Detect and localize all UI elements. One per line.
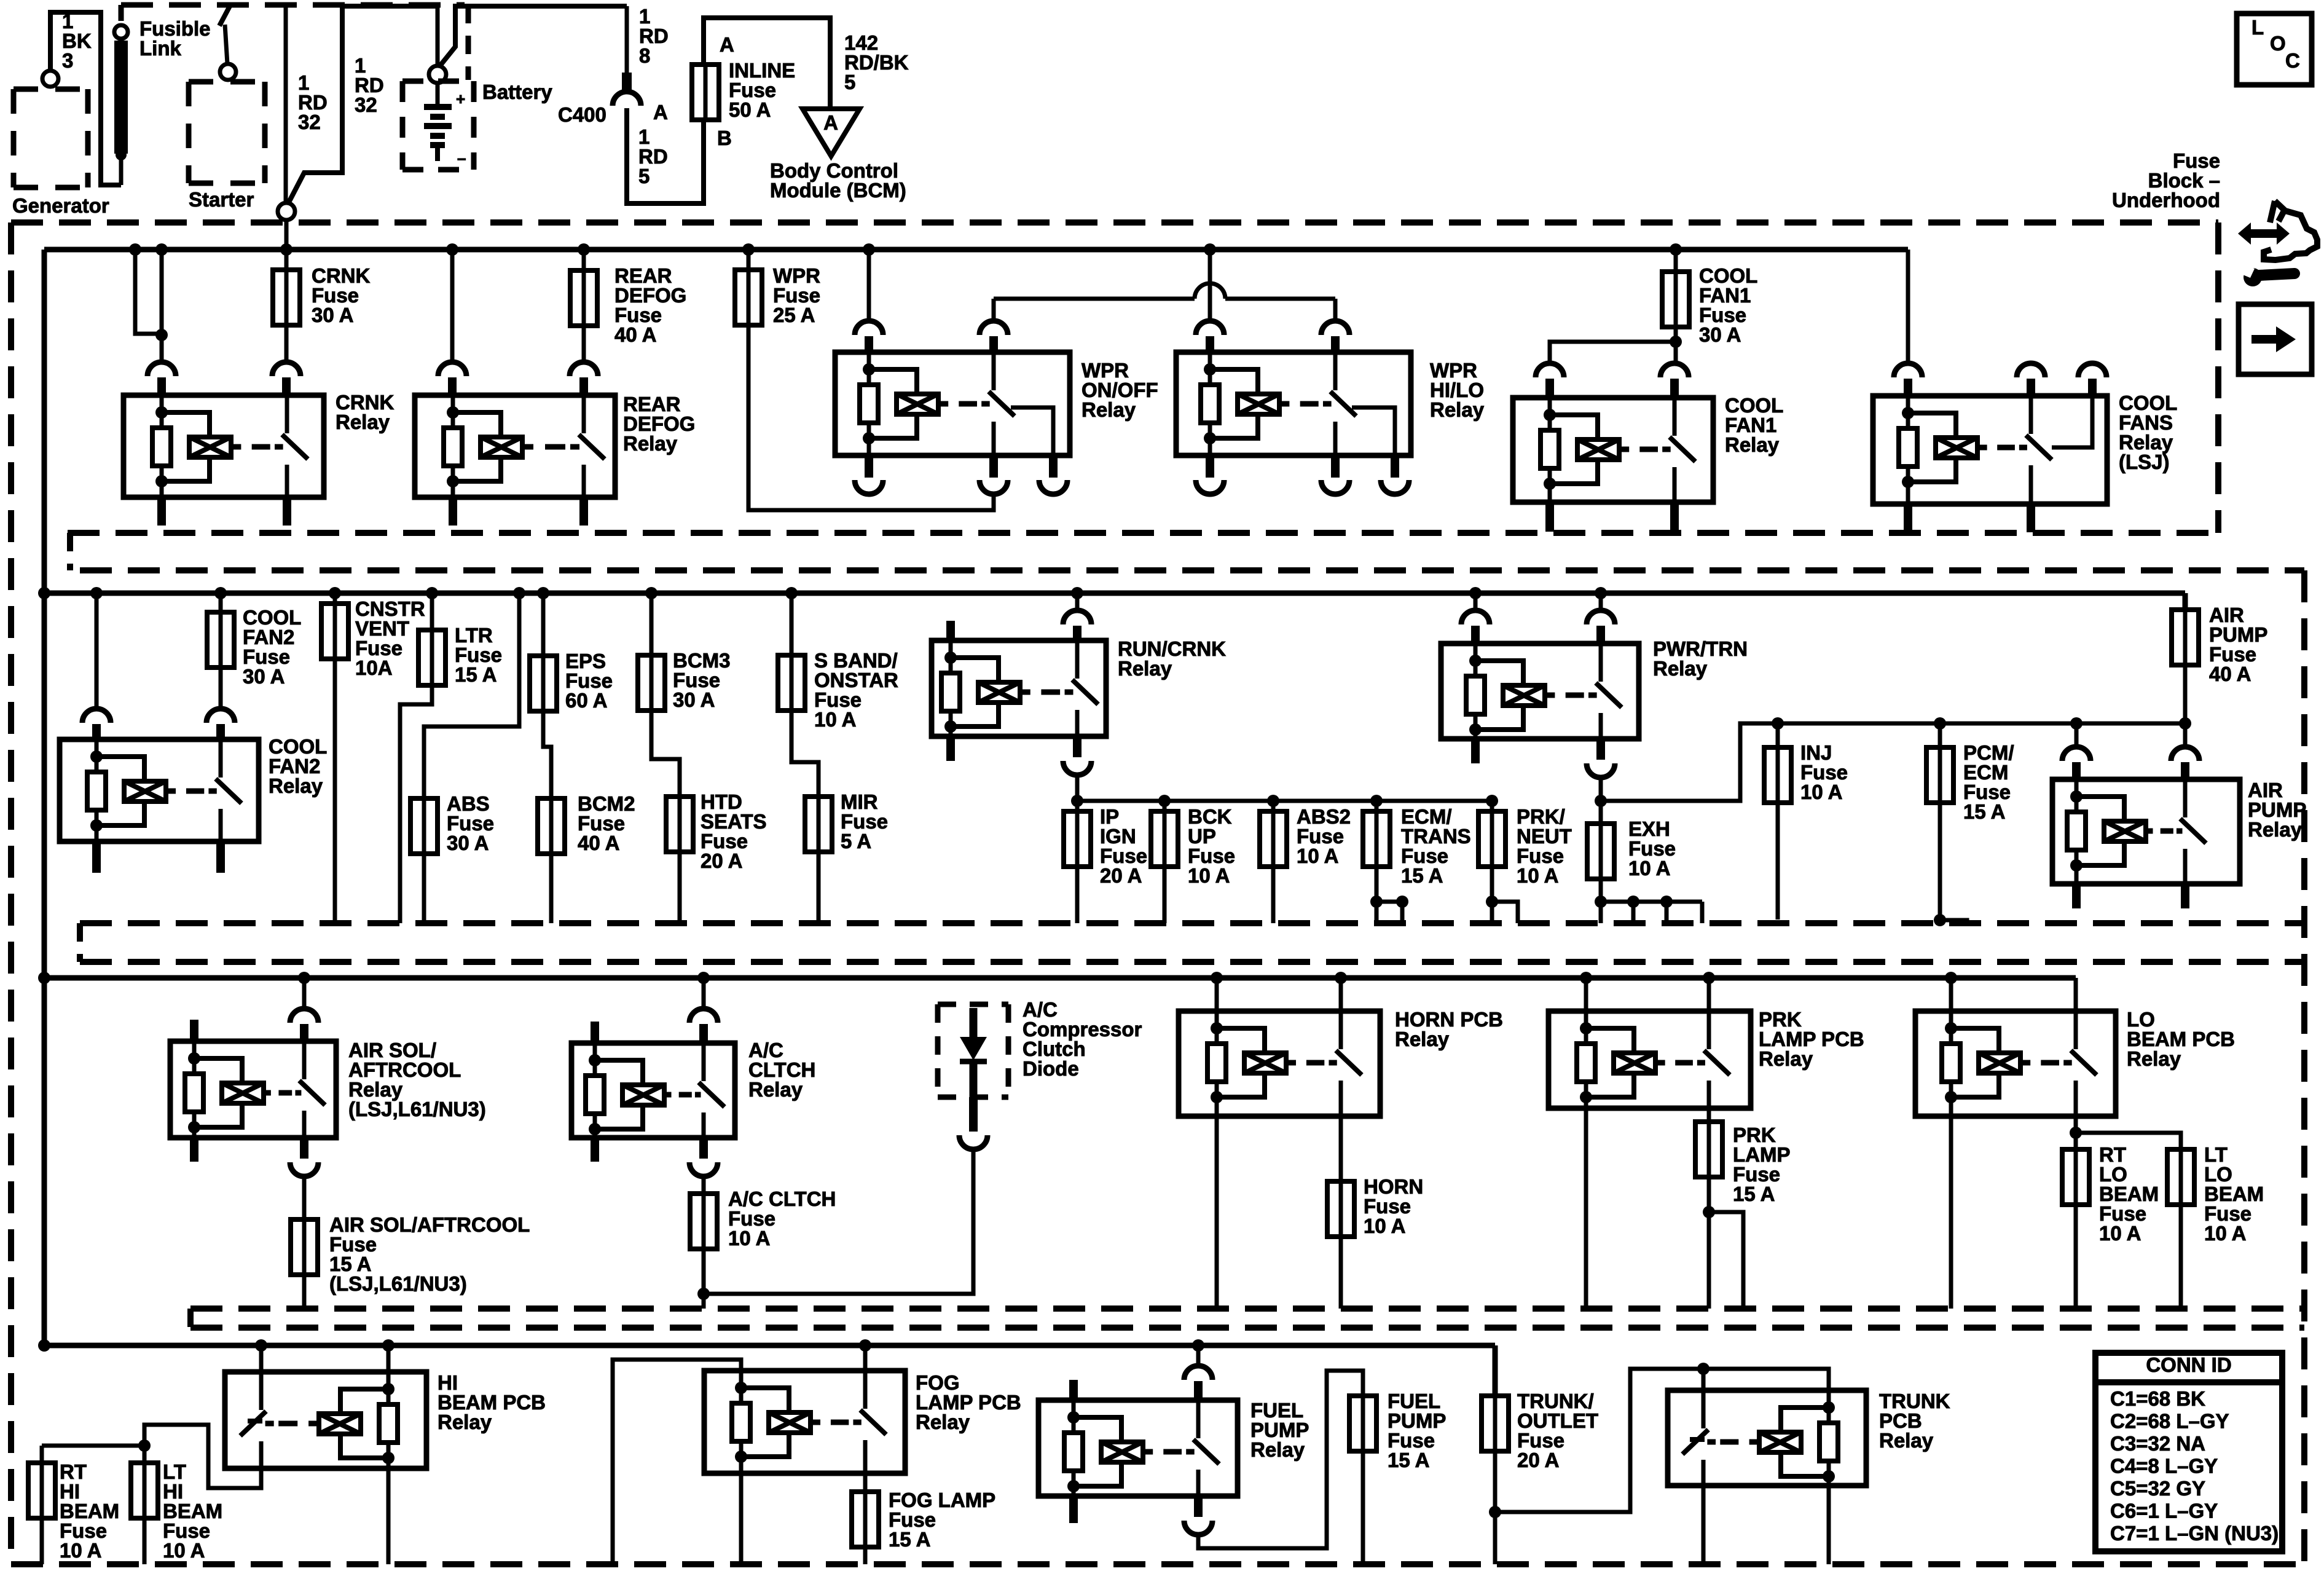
icon hand with arrows: [2264, 201, 2317, 260]
relay TRUNK PCB: [1668, 1390, 1866, 1486]
relay AIR SOL/AFTRCOOL: [170, 1041, 336, 1138]
LT LO BEAM fuse 10A: [2076, 1133, 2181, 1149]
BCK UP fuse 10A: [1163, 801, 1167, 811]
fuse TRUNK OUTLET 20A: [1482, 1396, 1509, 1451]
relay PRK LAMP PCB: [1584, 978, 1588, 1011]
relay HORN PCB: [1215, 978, 1219, 1011]
svg-text:+: +: [456, 90, 465, 108]
wire to starter: [219, 5, 230, 26]
fuse PCM ECM 15A: [1926, 747, 1953, 803]
COOL FAN2 fuse 30A: [219, 593, 223, 612]
fuse HTD SEATS 20A: [666, 797, 693, 852]
fuse PRK LAMP 15A: [1695, 1122, 1722, 1177]
PCM/ECM fuse 15A: [1938, 723, 1942, 747]
svg-text:A: A: [653, 101, 668, 124]
generator box: [14, 87, 88, 92]
IP IGN fuse 20A: [1075, 801, 1080, 811]
fuse FUEL PUMP 15A: [1349, 1396, 1376, 1451]
LTR fuse 15A: [430, 593, 434, 630]
relay FUEL PUMP: [1038, 1400, 1238, 1496]
fuse CNSTR VENT 10A: [321, 604, 348, 659]
svg-text:A: A: [823, 111, 838, 134]
EPS fuse 60A: [541, 593, 546, 656]
INJ fuse 10A: [1776, 723, 1780, 747]
wire fog lamp coil feed from left: [613, 1360, 741, 1564]
svg-text:ABSFuse30 A: ABSFuse30 A: [447, 792, 494, 854]
relay WPR ON/OFF: [835, 352, 1070, 455]
relay A/C CLTCH: [571, 1043, 735, 1138]
fuse EPS 60A: [530, 656, 557, 711]
fuse EXH 10A: [1587, 824, 1614, 879]
LOC box: [2237, 14, 2312, 85]
svg-text:A: A: [720, 33, 734, 56]
ABS2 fuse 10A: [1271, 801, 1276, 811]
fuse LTR 15A: [418, 630, 446, 685]
CNSTR VENT fuse 10A: [333, 593, 337, 604]
CRNK fuse 30A: [285, 250, 289, 270]
AIR PUMP fuse 40A: [2183, 593, 2188, 610]
fuse IP IGN 20A: [1064, 811, 1091, 867]
svg-text:B: B: [717, 127, 732, 149]
relay HI BEAM PCB (mirrored): [259, 1345, 264, 1372]
svg-text:EXHFuse10 A: EXHFuse10 A: [1628, 817, 1676, 880]
wpr hi/lo second terminal: [1352, 408, 1395, 455]
INLINE fuse: [692, 65, 719, 120]
fusible link: [114, 25, 128, 39]
AIR SOL/AFTRCOOL fuse 15A: [302, 1176, 307, 1219]
wire cool fan1 relay feeds: [1550, 342, 1676, 363]
battery: [429, 66, 446, 83]
COOL FAN1 fuse 30A: [1674, 250, 1678, 272]
icon arrow box: [2239, 304, 2312, 374]
relay LO BEAM PCB: [1915, 1011, 2116, 1116]
fuse LT HI BEAM 10A: [131, 1463, 158, 1518]
fuse MIR 5A: [805, 797, 832, 852]
relay AIR PUMP: [2052, 779, 2240, 884]
svg-text:COOLFAN2Relay: COOLFAN2Relay: [269, 735, 327, 797]
wire WPR ON/OFF coil feed: [867, 250, 871, 320]
svg-text:COOLFANSRelay(LSJ): COOLFANSRelay(LSJ): [2119, 392, 2177, 473]
bus4 feed: [44, 1343, 1495, 1349]
RT LO BEAM fuse 10A: [2074, 1133, 2078, 1149]
A/C CLTCH fuse 10A: [702, 1176, 706, 1194]
wire battery branch 1 RD 32: [288, 6, 438, 203]
wire a/c cltch fuse to diode: [704, 1149, 973, 1294]
wire ring to bus: [285, 220, 289, 250]
fuse HORN 10A: [1327, 1181, 1354, 1237]
relay REAR DEFOG: [415, 395, 615, 497]
svg-text:WPRHI/LORelay: WPRHI/LORelay: [1430, 359, 1485, 421]
fuse S BAND ONSTAR 10A: [778, 655, 805, 711]
relay FOG LAMP PCB: [704, 1371, 905, 1473]
wire WPR fuse to WPR ON/OFF relay switch bottom: [748, 325, 994, 510]
svg-text:Starter: Starter: [189, 188, 254, 211]
CONN ID table: [2095, 1353, 2282, 1551]
svg-text:COOLFAN1Relay: COOLFAN1Relay: [1725, 394, 1783, 456]
svg-text:BCKUPFuse10 A: BCKUPFuse10 A: [1188, 805, 1235, 887]
fuse block outer dashed border: [11, 219, 2218, 226]
relay PRK LAMP PCB: [1549, 1011, 1751, 1108]
fuse BCK UP 10A: [1151, 811, 1178, 867]
bus2 feed: [44, 591, 2185, 596]
svg-text:CRNKRelay: CRNKRelay: [336, 391, 394, 433]
wire hi beam switch to fuses: [144, 1425, 261, 1488]
svg-text:CONN ID: CONN ID: [2146, 1353, 2231, 1376]
fuse ABS2 10A: [1260, 811, 1287, 867]
wire fuel pump relay to fuse: [1198, 1371, 1363, 1548]
wire pwr/trn feeds: [1474, 593, 1478, 610]
wire generator to fusible link bottom: [50, 12, 121, 185]
fuse AIR SOL AFTRCOOL 15A: [291, 1219, 318, 1275]
harness dashed top line: [121, 2, 465, 8]
fuse ABS 30A: [410, 798, 438, 854]
FOG LAMP fuse 15A: [863, 1473, 868, 1492]
node ring junction: [278, 203, 295, 220]
relay FOG LAMP PCB: [863, 1345, 868, 1371]
PRK/NEUT fuse 10A: [1490, 801, 1494, 811]
fuse BCM2 40A: [538, 798, 565, 854]
fuse A/C CLTCH 10A: [690, 1194, 717, 1249]
relay COOL FAN1: [1513, 398, 1713, 502]
relay CRNK: [124, 395, 324, 497]
wire air pump relay feeds: [2075, 723, 2079, 746]
ECM/TRANS fuse 15A: [1375, 801, 1379, 811]
fuse LT LO BEAM 10A: [2167, 1149, 2194, 1205]
fuse COOL FAN2 30A: [207, 612, 234, 667]
S BAND/ONSTAR fuse 10A: [790, 593, 794, 655]
fuse ECM TRANS 15A: [1363, 811, 1390, 867]
wire air sol relay switch feed: [302, 978, 307, 1008]
relay LO BEAM PCB: [1949, 978, 1953, 1011]
RT HI BEAM fuse 10A: [40, 1446, 44, 1463]
relay HORN PCB: [1179, 1011, 1380, 1116]
TRUNK/OUTLET fuse 20A: [1493, 1345, 1498, 1396]
fuse BCM3 30A: [638, 655, 665, 711]
REAR DEFOG fuse 40A: [582, 250, 586, 270]
fuse WPR 25A: [735, 270, 762, 325]
EXH fuse 10A: [1599, 801, 1603, 824]
wire rear defog relay coil feed: [450, 250, 455, 361]
fuse AIR PUMP 40A: [2172, 610, 2199, 665]
BCM triangle connector A: [803, 109, 860, 156]
svg-text:Body ControlModule (BCM): Body ControlModule (BCM): [770, 159, 906, 202]
relay COOL FANS LSJ: [1873, 396, 2107, 504]
generator terminal ring: [42, 71, 58, 87]
A/C compressor clutch diode: [938, 1002, 1008, 1007]
starter terminal ring: [220, 64, 236, 80]
relay PWR/TRN: [1441, 644, 1639, 739]
svg-text:C: C: [2285, 49, 2300, 72]
fuse RT LO BEAM 10A: [2062, 1149, 2089, 1205]
wire a/c cltch switch feed: [702, 978, 706, 1008]
svg-text:Battery: Battery: [482, 81, 552, 103]
svg-text:WPRFuse25 A: WPRFuse25 A: [773, 264, 820, 326]
svg-text:FUELPUMPRelay: FUELPUMPRelay: [1250, 1399, 1309, 1461]
wire pwr/trn output: [1599, 778, 1603, 801]
cool fans second terminal to top: [2052, 396, 2092, 447]
relay FUEL PUMP: [1196, 1345, 1201, 1365]
row2-row3 dashed separators: [80, 920, 2304, 926]
wire run/crnk output to fuse row: [1075, 775, 1080, 801]
bus1 battery feed: [44, 247, 1908, 253]
wire inline fuse to BCM: [704, 18, 830, 107]
relay HI BEAM PCB: [225, 1372, 426, 1468]
fuse REAR DEFOG 40A: [570, 270, 597, 326]
wire WPR switch interconnect with hop: [992, 299, 996, 319]
wire abs fuse feed: [424, 593, 519, 798]
fuse INJ 10A: [1764, 747, 1791, 803]
WPR fuse 25A: [747, 250, 751, 270]
svg-text:L: L: [2251, 16, 2264, 39]
relay WPR HI/LO: [1176, 352, 1411, 455]
relay COOL FAN2: [60, 739, 259, 841]
relay RUN/CRNK: [932, 640, 1106, 736]
fuse RT HI BEAM 10A: [28, 1463, 55, 1518]
wire crnk relay coil feed: [135, 250, 162, 334]
fuse CRNK 30A: [273, 270, 300, 325]
svg-text:Generator: Generator: [12, 194, 109, 217]
fuse FOG LAMP 15A: [852, 1492, 879, 1547]
wire WPR HI/LO coil feed: [1208, 250, 1212, 320]
BCM3 fuse 30A: [650, 593, 654, 655]
svg-text:EPSFuse60 A: EPSFuse60 A: [565, 650, 613, 712]
bus3 feed: [44, 975, 2076, 981]
svg-text:O: O: [2270, 32, 2286, 55]
fuse PRK NEUT 10A: [1478, 811, 1505, 867]
wire cool fan2 relay coil feed: [95, 593, 99, 708]
fuse COOL FAN1 30A: [1662, 272, 1689, 327]
wire run/crnk switch feed: [1075, 593, 1080, 610]
svg-text:C400: C400: [558, 103, 607, 126]
svg-text:–: –: [457, 149, 466, 167]
wire trunk fuse to trunk relay: [1495, 1369, 1829, 1512]
row3-row4 dashed separators: [190, 1305, 2304, 1312]
left frame wire: [42, 250, 47, 1345]
wpr on/off second terminal: [1011, 408, 1053, 455]
wire cool fans relay coil feed: [1906, 250, 1910, 363]
starter box: [189, 79, 265, 85]
icon wrench: [2240, 264, 2295, 286]
LT HI BEAM fuse 10A: [143, 1446, 147, 1463]
